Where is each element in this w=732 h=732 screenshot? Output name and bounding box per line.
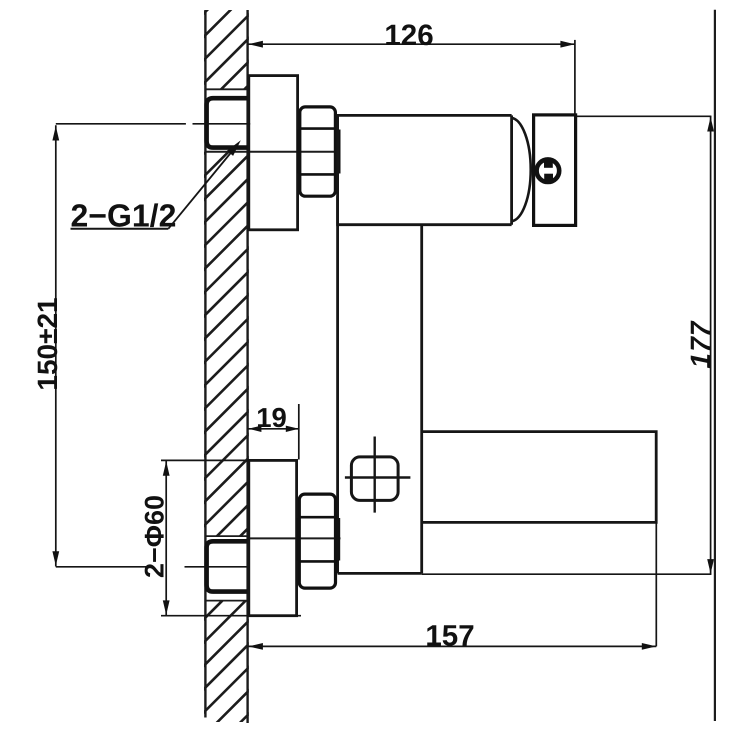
hatch break line below bottom pipe xyxy=(207,600,248,602)
top union axis line xyxy=(207,151,341,153)
valve body (horizontal cartridge housing) xyxy=(338,115,512,224)
bottom pipe nipple xyxy=(207,541,249,591)
diverter crosshair xyxy=(374,437,376,513)
dimension 126 (top) xyxy=(248,40,575,115)
long right border line xyxy=(714,10,716,721)
hatch break line above top pipe xyxy=(207,88,248,90)
svg-text:150±21: 150±21 xyxy=(32,297,63,390)
valve cap arc xyxy=(512,118,531,221)
svg-text:157: 157 xyxy=(425,620,474,653)
svg-text:177: 177 xyxy=(685,318,716,371)
svg-text:126: 126 xyxy=(384,19,433,52)
diverter knob (rounded square) xyxy=(351,457,398,501)
vertical body column xyxy=(338,196,422,573)
dimension 157 (bottom) xyxy=(248,522,657,646)
top union nut xyxy=(300,107,336,196)
dimension 177 (right) xyxy=(422,116,712,574)
svg-text:2−Φ60: 2−Φ60 xyxy=(140,495,170,578)
handle knob xyxy=(534,115,576,225)
wall left line xyxy=(204,10,206,718)
bottom wall flange xyxy=(249,460,297,615)
top wall flange xyxy=(249,76,298,230)
wall right line xyxy=(246,10,248,723)
dimension 2-Φ60 xyxy=(161,460,301,615)
spout xyxy=(422,432,657,523)
dimension 150±21 (left) xyxy=(56,124,250,567)
bottom union axis line xyxy=(207,535,248,537)
rotation icon on knob xyxy=(537,159,560,182)
svg-text:19: 19 xyxy=(256,402,287,433)
bottom union nut xyxy=(299,494,335,588)
top pipe nipple (2-G1/2 inlet) xyxy=(207,98,249,147)
dimension 19 xyxy=(248,404,299,460)
